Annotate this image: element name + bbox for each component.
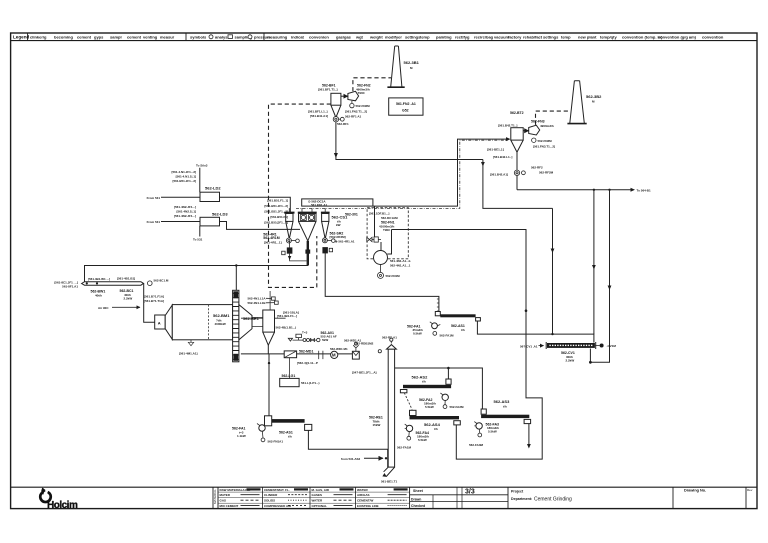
svg-text:562-FA3M: 562-FA3M: [469, 443, 484, 447]
air arrow into feed: [98, 306, 140, 310]
svg-text:From 531: From 531: [147, 220, 161, 224]
cyclone right: [322, 214, 329, 239]
svg-text:562-RD A1: 562-RD A1: [382, 336, 397, 340]
svg-text:cement: cement: [77, 34, 92, 39]
fan 562-FA4: [397, 424, 429, 449]
mill outlet cone: [239, 305, 263, 340]
air slide 562-AS1 (lower): [265, 416, 312, 431]
bag filter 562-BF2: [511, 128, 523, 152]
svg-text:[561-B51.JF1...2]: [561-B51.JF1...2]: [264, 204, 288, 208]
coupling: [319, 351, 323, 359]
wire feed drop to mill inlet: [144, 283, 155, 322]
svg-text:rectifyg: rectifyg: [455, 34, 470, 39]
svg-text:2.2kW: 2.2kW: [124, 297, 133, 301]
svg-text:[561-4.N1.JF1...2]: [561-4.N1.JF1...2]: [171, 170, 196, 174]
svg-text:562-DC1AM: 562-DC1AM: [381, 216, 398, 220]
svg-text:5.5kW: 5.5kW: [488, 430, 497, 434]
valve cluster separator center (thick chute): [305, 241, 310, 266]
svg-text:settings: settings: [405, 34, 421, 39]
svg-text:t/h: t/h: [288, 435, 292, 439]
svg-text:Sheet: Sheet: [413, 489, 424, 493]
svg-text:From 531: From 531: [147, 196, 161, 200]
label 562-FN2: [345, 84, 371, 114]
svg-text:56?-CV1 .A1: 56?-CV1 .A1: [520, 344, 538, 348]
svg-text:Project: Project: [511, 490, 524, 494]
wire elevator to return line: [235, 266, 237, 291]
svg-text:562-4N1.A1...1: 562-4N1.A1...1: [390, 263, 411, 267]
svg-text:[561.1DF.B1...]: [561.1DF.B1...]: [369, 212, 389, 216]
wire right vertical duct 2: [589, 189, 611, 364]
svg-text:modifyer: modifyer: [385, 34, 402, 39]
separator body 562-SR1: [299, 214, 317, 241]
wire hopper line down to air slide: [268, 354, 270, 416]
svg-text:Cement Grinding: Cement Grinding: [534, 497, 572, 503]
labels FN1: [345, 212, 411, 279]
svg-text:562-AS3: 562-AS3: [494, 399, 511, 404]
svg-text:562-LD2: 562-LD2: [205, 186, 221, 191]
fan 562-FN2: [341, 91, 359, 108]
svg-text:562-BE1: 562-BE1: [243, 316, 260, 321]
instrument air row 562-AD1: [288, 331, 337, 343]
svg-text:562-LD3: 562-LD3: [212, 212, 228, 217]
svg-text:[561.B42.L1..]: [561.B42.L1..]: [493, 155, 512, 159]
info box 561.FN2.A1: [389, 98, 423, 115]
svg-text:[561-BE1.J.]: [561-BE1.J.]: [487, 148, 504, 152]
svg-text:pressure: pressure: [254, 34, 272, 39]
svg-text:562-RF1 A1: 562-RF1 A1: [345, 115, 362, 119]
screw conveyor 562-CV1: [546, 342, 603, 349]
legend bar strip: [11, 40, 757, 42]
svg-text:COMPRESSED AIR: COMPRESSED AIR: [264, 504, 292, 508]
label 562-BE1: [241, 316, 286, 321]
fan 562-FA3: [469, 422, 499, 447]
svg-text:weight: weight: [369, 34, 383, 39]
svg-text:gyps: gyps: [94, 34, 104, 39]
svg-text:561.FN1.A1: 561.FN1.A1: [311, 203, 328, 207]
svg-text:[561.4B1.F1...]: [561.4B1.F1...]: [277, 314, 297, 318]
svg-text:0.5kW: 0.5kW: [413, 331, 422, 335]
labels separator: [330, 215, 355, 244]
svg-text:Rev: Rev: [747, 488, 753, 492]
labels LD2: [147, 164, 222, 200]
dashed duct FN2 to stack: [353, 78, 391, 92]
fan 562-FN1: [374, 230, 392, 279]
svg-text:562-RF1: 562-RF1: [337, 122, 349, 126]
svg-text:562-WD1 M1: 562-WD1 M1: [330, 347, 348, 351]
svg-text:562-RF2M: 562-RF2M: [539, 171, 554, 175]
svg-text:temp/qty: temp/qty: [600, 34, 617, 39]
valve cluster left cyclone: [282, 238, 307, 261]
box 562-DC1A: [302, 199, 373, 207]
svg-text:[561.B51.F1]: [561.B51.F1]: [270, 215, 288, 219]
svg-text:from 531.AS2: from 531.AS2: [341, 457, 361, 461]
svg-text:CEMENT/W: CEMENT/W: [357, 498, 374, 502]
labels mill: [144, 295, 230, 327]
wire right vertical duct 1: [592, 189, 596, 335]
mill drain: [179, 340, 198, 356]
svg-text:562-LG1: 562-LG1: [282, 374, 296, 378]
svg-text:15kW: 15kW: [373, 423, 381, 427]
svg-text:562-301: 562-301: [345, 213, 358, 217]
svg-text:painting: painting: [436, 34, 452, 39]
svg-text:5.5kW: 5.5kW: [418, 438, 427, 442]
svg-text:562-4N1.L1B: 562-4N1.L1B: [247, 301, 266, 305]
dashed enclosure around 562-FN1: [367, 208, 408, 259]
feeder 562-LD3: [161, 217, 300, 236]
svg-text:SOLIDS: SOLIDS: [264, 498, 275, 502]
svg-text:Air 90C: Air 90C: [98, 306, 109, 310]
svg-text:temp: temp: [561, 34, 571, 39]
svg-text:[561.4B1.W1 ...]: [561.4B1.W1 ...]: [88, 277, 110, 281]
svg-text:[561.B41.A1]: [561.B41.A1]: [310, 114, 328, 118]
svg-text:t/h: t/h: [422, 380, 426, 384]
svg-text:convention (temp. in): convention (temp. in): [622, 34, 663, 39]
svg-text:[561.FN2.T1...2]: [561.FN2.T1...2]: [345, 110, 367, 114]
svg-text:factory: factory: [508, 34, 522, 39]
svg-text:MATERIAL: MATERIAL: [213, 489, 217, 504]
svg-text:cement: cement: [127, 34, 142, 39]
svg-text:convention: convention: [702, 34, 724, 39]
svg-text:convenien: convenien: [309, 34, 329, 39]
svg-text:562-4B(1.B1...): 562-4B(1.B1...): [276, 326, 297, 330]
control box 562-WD1: [352, 342, 359, 359]
fan 562-FN3: [523, 125, 540, 142]
wire feed header to AS2/AS3: [395, 368, 483, 409]
svg-text:562-FN3M: 562-FN3M: [538, 139, 553, 143]
svg-text:wgt: wgt: [355, 34, 364, 39]
svg-text:temp: temp: [420, 34, 430, 39]
svg-text:MATER: MATER: [220, 493, 231, 497]
svg-text:Holcim: Holcim: [47, 500, 78, 511]
svg-text:562-3B2: 562-3B2: [586, 94, 602, 99]
title block legend table: [212, 487, 214, 508]
svg-text:562-3B1: 562-3B1: [404, 60, 420, 65]
valve on FN1 inlet: [367, 237, 381, 242]
svg-text:Drawn: Drawn: [411, 497, 421, 501]
svg-text:562-4N1.L1A: 562-4N1.L1A: [247, 297, 266, 301]
svg-text:5.5kW: 5.5kW: [425, 405, 434, 409]
svg-text:[562-RF2M]: [562-RF2M]: [330, 235, 346, 239]
cyclone left: [286, 214, 293, 239]
fan 562-FA1 (upper): [407, 322, 454, 338]
svg-text:rehab/fact: rehab/fact: [523, 34, 543, 39]
label list left of separator: [264, 199, 288, 225]
motor M: [331, 351, 338, 358]
svg-text:[561.B51.F1..1]: [561.B51.F1..1]: [267, 199, 288, 203]
svg-text:A: A: [158, 321, 161, 326]
svg-text:562-BT2: 562-BT2: [510, 111, 524, 115]
labels RE1: [352, 371, 398, 484]
svg-text:measur: measur: [160, 34, 175, 39]
svg-text:4900m3/h: 4900m3/h: [540, 124, 554, 128]
labels conveyor: [54, 277, 135, 301]
from 531.AS2 arrow: [341, 457, 387, 461]
labels under BF2: [490, 155, 554, 177]
svg-text:becoming: becoming: [54, 34, 73, 39]
svg-text:[561.B?1.F1A]: [561.B?1.F1A]: [144, 295, 164, 299]
svg-text:[561-4M1.A1]: [561-4M1.A1]: [179, 352, 198, 356]
svg-text:40t/h: 40t/h: [95, 294, 102, 298]
svg-text:analys: analys: [215, 34, 228, 39]
svg-text:561.FN2 .A1: 561.FN2 .A1: [396, 102, 416, 106]
svg-text:EXISTING LINE: EXISTING LINE: [357, 504, 379, 508]
svg-text:MIX CEMENT: MIX CEMENT: [220, 504, 239, 508]
svg-text:[561.BF1.T1..]: [561.BF1.T1..]: [318, 88, 338, 92]
svg-text:Checked: Checked: [411, 504, 425, 508]
wire main gas line right: [481, 162, 485, 167]
wire AS1 upper discharge to conveyor: [477, 321, 594, 343]
labels AS2: [412, 375, 429, 384]
svg-text:symbols: symbols: [190, 34, 207, 39]
svg-text:561-L(1.P1...): 561-L(1.P1...): [301, 381, 320, 385]
label 562-3B1: [404, 60, 420, 70]
level gauge 562-LG1: [280, 358, 320, 387]
wire hopper vertex to boot line: [267, 345, 269, 354]
svg-text:AIR/GAS: AIR/GAS: [357, 493, 370, 497]
svg-text:1.1kW: 1.1kW: [237, 434, 246, 438]
labels FN3: [531, 120, 555, 149]
air slide 562-AS4: [410, 410, 461, 425]
wire mill feed return line: [85, 253, 308, 282]
svg-text:WATER: WATER: [357, 488, 368, 492]
dashed duct FN3 to stack 2: [536, 111, 570, 125]
svg-text:562-4R1M: 562-4R1M: [263, 236, 279, 240]
wire mill discharge line: [241, 353, 353, 355]
svg-text:gas/gas: gas/gas: [336, 34, 352, 39]
svg-text:[561.B42.A1]: [561.B42.A1]: [490, 173, 508, 177]
svg-text:T90C: T90C: [358, 91, 366, 95]
svg-text:CLINKER: CLINKER: [264, 493, 278, 497]
fan 562-FA1 (lower): [232, 424, 283, 444]
svg-text:[547-BE1.JF1...A]: [547-BE1.JF1...A]: [352, 371, 377, 375]
labels AS4: [424, 422, 441, 431]
svg-text:t/h: t/h: [503, 404, 507, 408]
stack 562-3B2: [567, 81, 586, 124]
svg-text:2.2kW: 2.2kW: [566, 358, 575, 362]
svg-text:562-FA1M: 562-FA1M: [440, 334, 455, 338]
Holcim logo: [38, 488, 78, 512]
svg-text:562-FA2M: 562-FA2M: [450, 405, 465, 409]
ball mill 562-BM1: [155, 305, 233, 340]
slide gate 562-MD1: [284, 351, 296, 358]
svg-text:[561-4.N1.1L1]: [561-4.N1.1L1]: [176, 175, 196, 179]
svg-text:OPTIONAL: OPTIONAL: [312, 504, 328, 508]
svg-text:5kW: 5kW: [322, 338, 328, 342]
svg-text:562-FN1M: 562-FN1M: [386, 274, 401, 278]
mill discharge trommel (striped band): [233, 290, 239, 362]
svg-text:[561-4B1.B1]: [561-4B1.B1]: [117, 277, 135, 281]
wire AS3 discharge: [528, 424, 530, 447]
svg-text:convention (g/g am): convention (g/g am): [658, 34, 697, 39]
wire BF2 discharge to 564: [517, 152, 631, 190]
svg-text:G52: G52: [402, 109, 409, 113]
svg-text:[561.FN3.T1...2]: [561.FN3.T1...2]: [533, 145, 555, 149]
svg-text:562-RDB1M2: 562-RDB1M2: [355, 342, 374, 346]
labels boot line: [297, 339, 362, 365]
air slide 562-AS1 (upper): [435, 312, 480, 322]
svg-text:t/h: t/h: [461, 328, 465, 332]
svg-text:To 531: To 531: [193, 238, 203, 242]
svg-text:[561-4N2.JF1...]: [561-4N2.JF1...]: [174, 214, 196, 218]
svg-text:t/h: t/h: [434, 427, 438, 431]
svg-text:561-BE1.T1: 561-BE1.T1: [381, 480, 398, 484]
svg-text:562-FA1M: 562-FA1M: [397, 446, 412, 450]
svg-text:GASES: GASES: [312, 493, 323, 497]
svg-text:Department:: Department:: [511, 497, 532, 501]
svg-text:[561.B42.T1..]: [561.B42.T1..]: [498, 124, 517, 128]
svg-text:T=3: T=3: [302, 331, 308, 335]
svg-text:sampl: sampl: [110, 34, 122, 39]
svg-text:562-FN2M: 562-FN2M: [356, 104, 371, 108]
label 562-BF1: [318, 84, 338, 92]
svg-text:To 564-B1: To 564-B1: [637, 188, 651, 192]
svg-text:⊗ 561-4R1.A1: ⊗ 561-4R1.A1: [335, 239, 355, 243]
valve cluster right cyclone: [322, 238, 335, 253]
svg-text:RAW MATERIAL/LINE: RAW MATERIAL/LINE: [220, 488, 251, 492]
labels right of hopper: [276, 311, 299, 330]
wire AS1 lower discharge to RE1 duct: [308, 430, 387, 467]
svg-text:T90C: T90C: [383, 228, 391, 232]
svg-text:To Silo3: To Silo3: [196, 164, 208, 168]
wire FN1 inlet drop: [374, 206, 376, 237]
wire BF1 discharge down and right: [336, 122, 483, 160]
wire to BF2 from separator line: [373, 139, 508, 206]
fan 562-FA2: [419, 393, 464, 409]
belt weigher 562-BW1 / conveyor 562-BC1: [82, 279, 169, 286]
separator drops to header: [289, 208, 325, 213]
labels under left cyclone: [263, 233, 281, 245]
svg-text:recirc/bag: recirc/bag: [474, 34, 494, 39]
mill outlet hopper 562-BN1: [263, 291, 275, 345]
dashed spill AS2 to AS4: [404, 393, 412, 410]
svg-text:-CV1M: -CV1M: [607, 344, 617, 348]
svg-text:562-FN3: 562-FN3: [531, 120, 545, 124]
label 562-3B2: [586, 94, 602, 104]
svg-text:4000kW: 4000kW: [215, 322, 226, 326]
title block outline: [11, 486, 757, 488]
svg-text:561-8F1.A1: 561-8F1.A1: [62, 285, 78, 289]
svg-text:562-MD1: 562-MD1: [299, 350, 313, 354]
svg-text:[561.B51.JF1...2]: [561.B51.JF1...2]: [172, 179, 196, 183]
svg-text:Legend: Legend: [13, 35, 30, 40]
labels LD3: [147, 205, 229, 242]
dashed line BF1 to battery limit: [269, 104, 331, 287]
svg-text:[561-4N2.1L1]: [561-4N2.1L1]: [176, 210, 196, 214]
svg-text:[561-4R1...1]: [561-4R1...1]: [264, 241, 282, 245]
labels AS1 upper: [451, 324, 465, 332]
svg-text:[561-4N2.JF1...]: [561-4N2.JF1...]: [174, 205, 196, 209]
bag filter 562-BF1: [331, 93, 341, 117]
duct 562-RE1: [382, 345, 396, 477]
rotary feeder 562-RF2: [514, 170, 525, 175]
svg-text:562-8C1.M: 562-8C1.M: [154, 279, 169, 283]
level switch tags hopper: [247, 297, 278, 306]
svg-text:562-AS4: 562-AS4: [424, 422, 441, 427]
svg-text:WATER: WATER: [312, 498, 323, 502]
svg-text:562-BM1: 562-BM1: [213, 313, 230, 318]
labels AS3: [494, 399, 511, 408]
svg-text:562-FN1A1: 562-FN1A1: [268, 440, 284, 444]
svg-text:clinker/g: clinker/g: [30, 34, 47, 39]
drawing no cell: [672, 487, 674, 508]
svg-text:indicat: indicat: [291, 34, 305, 39]
labels AS1 lower: [279, 431, 293, 439]
svg-text:[561.B51.JF1...2]: [561.B51.JF1...2]: [264, 210, 288, 214]
svg-text:[562-4](1.11...P: [562-4](1.11...P: [297, 361, 318, 365]
svg-text:[561.B?1.T1A]: [561.B?1.T1A]: [144, 299, 164, 303]
stack 562-3B1: [387, 46, 404, 87]
separator 562-CS1 top caps: [284, 212, 329, 214]
sensors above RE1: [355, 336, 397, 353]
svg-text:[561.B51(JF1...2]: [561.B51(JF1...2]: [264, 221, 288, 225]
air slide 562-AS3: [481, 409, 530, 424]
svg-text:settings: settings: [543, 34, 559, 39]
feeder 562-LD2: [161, 168, 290, 214]
svg-text:venting: venting: [143, 34, 158, 39]
svg-text:kW: kW: [336, 223, 341, 227]
svg-text:Drawing No.: Drawing No.: [684, 489, 706, 493]
dash-dot dedusting header: [296, 140, 508, 208]
wire separator product down-right to air slide: [437, 299, 439, 311]
labels CV1: [520, 344, 616, 362]
wire FN1 outlet to collector: [392, 230, 543, 460]
air slide 562-AS2: [400, 379, 451, 393]
rotary feeder 562-RF1: [333, 117, 344, 122]
svg-text:GAS: GAS: [220, 498, 227, 502]
labels RF1: [308, 110, 362, 126]
svg-text:562-RF2: 562-RF2: [531, 166, 543, 170]
svg-text:M: M: [332, 353, 336, 358]
svg-text:new plant: new plant: [578, 34, 597, 39]
svg-text:CEMENT/MAT. FL.: CEMENT/MAT. FL.: [264, 488, 290, 492]
svg-text:M. GAS, AIR: M. GAS, AIR: [312, 488, 330, 492]
